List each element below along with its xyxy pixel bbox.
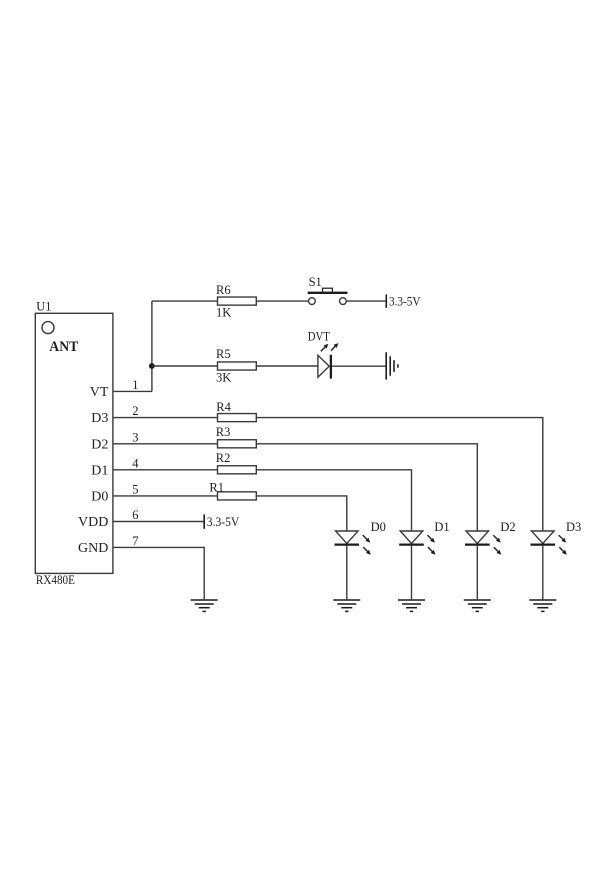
wire node to R5 <box>152 365 218 367</box>
wire pin7 GND down <box>113 547 204 599</box>
D2 arrow 1 <box>493 535 501 543</box>
DVT arrow 2 <box>331 343 339 351</box>
svg-text:3K: 3K <box>216 370 231 384</box>
wire pin1 VT to trunk <box>113 390 152 392</box>
D3 arrow 1 <box>559 535 567 543</box>
resistor R6 <box>218 297 257 305</box>
wire S1 to power <box>346 300 386 302</box>
svg-text:R3: R3 <box>216 425 231 439</box>
IC U1 box <box>35 313 113 573</box>
svg-text:2: 2 <box>132 404 138 418</box>
D1 arrow 1 <box>427 535 435 543</box>
svg-text:3.3-5V: 3.3-5V <box>389 294 421 308</box>
svg-text:1K: 1K <box>216 306 231 320</box>
svg-text:S1: S1 <box>309 275 322 289</box>
wire trunk vertical <box>151 301 153 391</box>
svg-text:D0: D0 <box>371 520 386 534</box>
wire pin3 D2 row <box>113 443 218 445</box>
ground D0 <box>333 600 360 611</box>
wire trunk to R6 <box>152 300 218 302</box>
svg-text:R5: R5 <box>216 347 231 361</box>
svg-text:R4: R4 <box>216 400 231 414</box>
wire pin6 VDD <box>113 521 204 523</box>
LED D2 <box>465 531 490 545</box>
svg-text:R1: R1 <box>209 481 224 495</box>
svg-text:D2: D2 <box>500 520 515 534</box>
wire D1 to ground <box>411 546 413 600</box>
wire D0 to ground <box>346 546 348 600</box>
wire R3 to D2 column <box>256 444 477 531</box>
svg-text:RX480E: RX480E <box>36 573 75 587</box>
wire R5 to LED DVT <box>256 365 318 367</box>
ground D3 <box>529 600 556 611</box>
power terminal bar (top 3.3-5V) <box>385 294 387 308</box>
D0 arrow 1 <box>363 535 371 543</box>
svg-text:U1: U1 <box>36 300 51 314</box>
switch S1 <box>308 288 348 304</box>
svg-text:D3: D3 <box>566 520 581 534</box>
svg-text:R6: R6 <box>216 283 231 297</box>
svg-text:ANT: ANT <box>49 339 78 355</box>
svg-text:D1: D1 <box>434 520 449 534</box>
svg-text:5: 5 <box>132 483 138 497</box>
node junction dot <box>149 363 155 369</box>
resistor R1 <box>218 492 257 500</box>
svg-text:R2: R2 <box>216 451 231 465</box>
resistor R2 <box>218 466 257 474</box>
wire LED DVT to ground <box>332 365 386 367</box>
svg-text:3: 3 <box>132 430 138 444</box>
svg-text:4: 4 <box>132 456 139 470</box>
svg-text:GND: GND <box>78 541 108 556</box>
ground D1 <box>398 600 425 611</box>
LED DVT <box>318 355 331 379</box>
svg-text:1: 1 <box>132 378 138 392</box>
svg-text:6: 6 <box>132 508 138 522</box>
svg-text:VDD: VDD <box>78 515 108 530</box>
resistor R5 <box>218 362 257 370</box>
D3 arrow 2 <box>559 547 567 555</box>
wire pin2 D3 row <box>113 417 218 419</box>
wire R4 to D3 column <box>256 418 543 531</box>
wire D2 to ground <box>476 546 478 600</box>
D2 arrow 2 <box>494 547 502 555</box>
svg-text:D0: D0 <box>91 489 108 504</box>
DVT arrow 1 <box>321 344 329 352</box>
LED D0 <box>335 531 360 545</box>
resistor R3 <box>218 440 257 448</box>
D1 arrow 2 <box>428 547 436 555</box>
svg-text:D3: D3 <box>91 411 108 426</box>
resistor R4 <box>218 414 257 422</box>
wire pin5 D0 row <box>113 495 218 497</box>
svg-text:7: 7 <box>132 534 138 548</box>
ground D2 <box>464 600 491 611</box>
wire R2 to D1 column <box>256 470 411 531</box>
wire D3 to ground <box>542 546 544 600</box>
wire R6 to S1 <box>256 300 308 302</box>
D0 arrow 2 <box>363 547 371 555</box>
ground GND <box>191 600 218 611</box>
LED D3 <box>531 531 556 545</box>
ground (sideways) after DVT <box>386 352 398 379</box>
antenna circle <box>42 322 54 334</box>
wire R1 to D0 column <box>256 496 347 531</box>
power terminal bar (VDD 3.3-5V) <box>203 514 205 528</box>
svg-text:D1: D1 <box>91 463 108 478</box>
svg-text:VT: VT <box>90 385 109 400</box>
svg-text:D2: D2 <box>91 437 108 452</box>
LED D1 <box>399 531 424 545</box>
svg-text:DVT: DVT <box>308 329 330 343</box>
wire pin4 D1 row <box>113 469 218 471</box>
svg-text:3.3-5V: 3.3-5V <box>207 515 240 529</box>
